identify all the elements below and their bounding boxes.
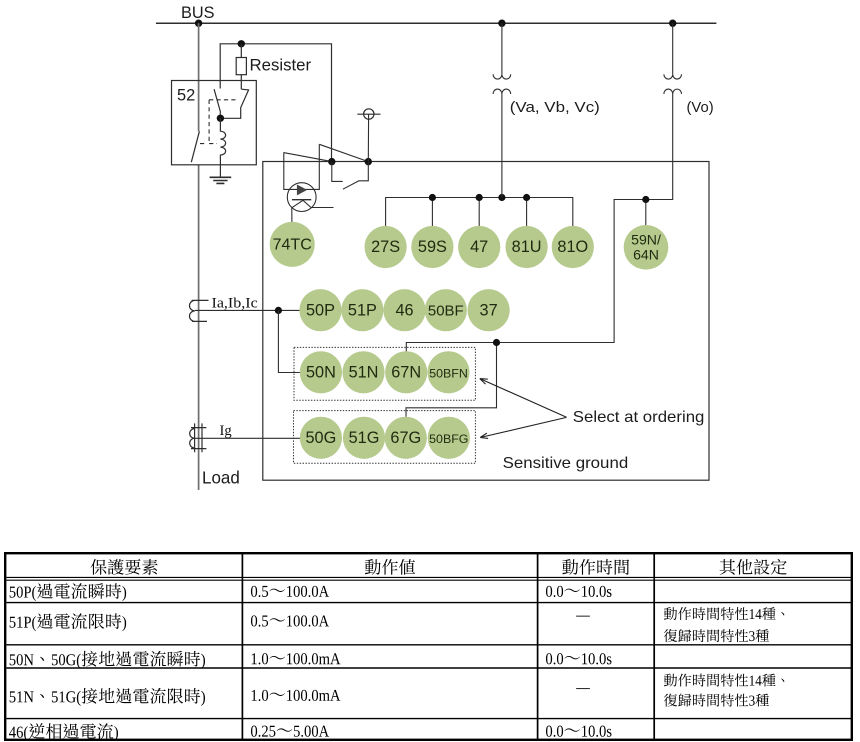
VT (Vo) windings [664, 74, 682, 79]
bus bar wire [156, 22, 717, 24]
svg-text:81O: 81O [557, 238, 588, 256]
breaker 52 box [172, 81, 257, 165]
relay element 37 [468, 289, 510, 331]
node: feeder tap on bus [195, 20, 202, 27]
relay element 67G [385, 417, 427, 459]
resistor (Resister) body [236, 58, 246, 75]
breaker 52 aux contact a (left) blade [214, 89, 221, 112]
svg-text:Sensitive ground: Sensitive ground [503, 455, 629, 472]
wire: main feeder upper [198, 23, 200, 131]
svg-text:Ig: Ig [220, 423, 233, 439]
svg-text:50BF: 50BF [428, 302, 464, 319]
relay element 47 [458, 226, 500, 268]
voltage relay group connection wire [386, 198, 573, 227]
relay element 51N [342, 351, 384, 393]
svg-text:67N: 67N [391, 363, 421, 381]
wire: main feeder lower [198, 165, 200, 490]
bypass contact blade [343, 181, 359, 189]
relay element 59N/64N [624, 225, 669, 270]
row 50N/50G [10, 654, 16, 665]
svg-text:67G: 67G [390, 429, 421, 447]
wire: aux contact to coil node [219, 113, 221, 119]
svg-text:50BFG: 50BFG [429, 432, 468, 446]
table header texts [91, 559, 107, 575]
svg-text:50P: 50P [306, 301, 335, 319]
svg-text:50N: 50N [306, 363, 336, 381]
mechanical linkage (dashed) [200, 100, 237, 144]
thyristor / trip element circle [287, 183, 316, 212]
breaker 52 main contact blade [191, 131, 199, 162]
dotted option box G [294, 411, 476, 464]
svg-text:27S: 27S [371, 238, 400, 256]
svg-text:Resister: Resister [250, 55, 312, 74]
breaker 52 aux contact b (right, resistor branch) [221, 89, 249, 118]
wire: resistor bottom lead [240, 75, 242, 90]
wire: Vo secondary run [406, 94, 673, 417]
VT (Va,Vb,Vc) windings [493, 74, 511, 79]
svg-text:47: 47 [470, 238, 488, 256]
relay element 27S [365, 226, 407, 268]
relay element 81U [505, 226, 547, 268]
node dots on voltage bus [429, 194, 436, 201]
wire: trip supply from bus node to relay box [220, 44, 331, 158]
svg-text:59N/: 59N/ [631, 232, 661, 248]
svg-text:51P: 51P [348, 301, 377, 319]
wire: branch to 50N row [278, 310, 300, 372]
node: 59N tap [642, 196, 649, 203]
relay element 50G [300, 417, 342, 459]
svg-text:81U: 81U [512, 238, 542, 256]
wire: to 74TC [291, 208, 293, 222]
svg-text:50BFN: 50BFN [429, 366, 468, 380]
selector switch blade 2 [319, 144, 368, 161]
node: switch dot 2 [365, 158, 372, 165]
svg-text:59S: 59S [418, 238, 447, 256]
svg-text:74TC: 74TC [273, 237, 312, 254]
relay element 59S [411, 226, 453, 268]
node: switch dot 1 [328, 158, 335, 165]
svg-text:51N: 51N [349, 363, 379, 381]
node: resistor tap [238, 40, 245, 47]
select-at-ordering arrow to N box [480, 379, 567, 418]
row 51P [10, 617, 16, 628]
trip coil TC [220, 118, 225, 177]
table header double rule [6, 576, 851, 578]
relay element 74TC [270, 222, 315, 267]
svg-text:BUS: BUS [181, 4, 215, 22]
svg-text:Ia,Ib,Ic: Ia,Ib,Ic [212, 295, 259, 311]
svg-text:52: 52 [177, 87, 195, 105]
relay element 50N [300, 351, 342, 393]
wire: ZCT secondary to 50G [195, 437, 300, 439]
svg-text:50G: 50G [306, 429, 337, 447]
relay element 50BFN [427, 351, 469, 393]
row 46 [9, 727, 16, 738]
VT (Vo) primary lead [672, 23, 674, 74]
wire: resistor top lead [240, 44, 242, 58]
svg-text:46: 46 [395, 301, 413, 319]
wire: test terminal to switch dot 2 [367, 114, 369, 161]
relay element 50P [299, 289, 341, 331]
svg-text:Select at ordering: Select at ordering [573, 409, 705, 426]
relay element 46 [383, 289, 425, 331]
VT (Va,Vb,Vc) primary lead [501, 23, 503, 74]
svg-text:64N: 64N [633, 247, 659, 263]
node: VT Vo tap on bus [669, 20, 676, 27]
dotted option box N [294, 347, 475, 400]
bypass contact wires below [332, 162, 369, 182]
node: 67G branch [493, 339, 500, 346]
table column rules [241, 553, 243, 740]
relay element 81O [552, 226, 594, 268]
selector switch frame wire [284, 144, 320, 189]
relay element 50BF [425, 289, 467, 331]
relay element 51G [343, 417, 385, 459]
svg-text:(Vo): (Vo) [687, 100, 714, 116]
relay boundary box [263, 162, 709, 481]
svg-text:37: 37 [480, 301, 498, 319]
relay element 51P [341, 289, 383, 331]
row 51N/51G [10, 691, 16, 702]
test terminal circle [364, 109, 374, 119]
select-at-ordering arrow to G box [480, 417, 566, 438]
row 50P [10, 587, 16, 598]
svg-text:(Va, Vb, Vc): (Va, Vb, Vc) [510, 100, 600, 116]
table row rules [6, 602, 851, 604]
node: trip coil junction [217, 115, 224, 122]
relay element 50BFG [428, 417, 470, 459]
node: VT Va tap on bus [498, 20, 505, 27]
CT Ia,Ib,Ic symbol [190, 300, 209, 321]
selector switch blade 1 [284, 153, 332, 162]
relay element 67N [385, 351, 427, 393]
table outer border [5, 553, 852, 740]
ZCT Ig symbol [190, 423, 207, 452]
wire: VT secondary to relay [501, 94, 503, 198]
svg-text:Load: Load [202, 467, 240, 487]
node: current branch [275, 307, 282, 314]
ground [210, 177, 232, 183]
wire: CT secondary to 50P [195, 309, 300, 311]
svg-text:51G: 51G [349, 429, 380, 447]
